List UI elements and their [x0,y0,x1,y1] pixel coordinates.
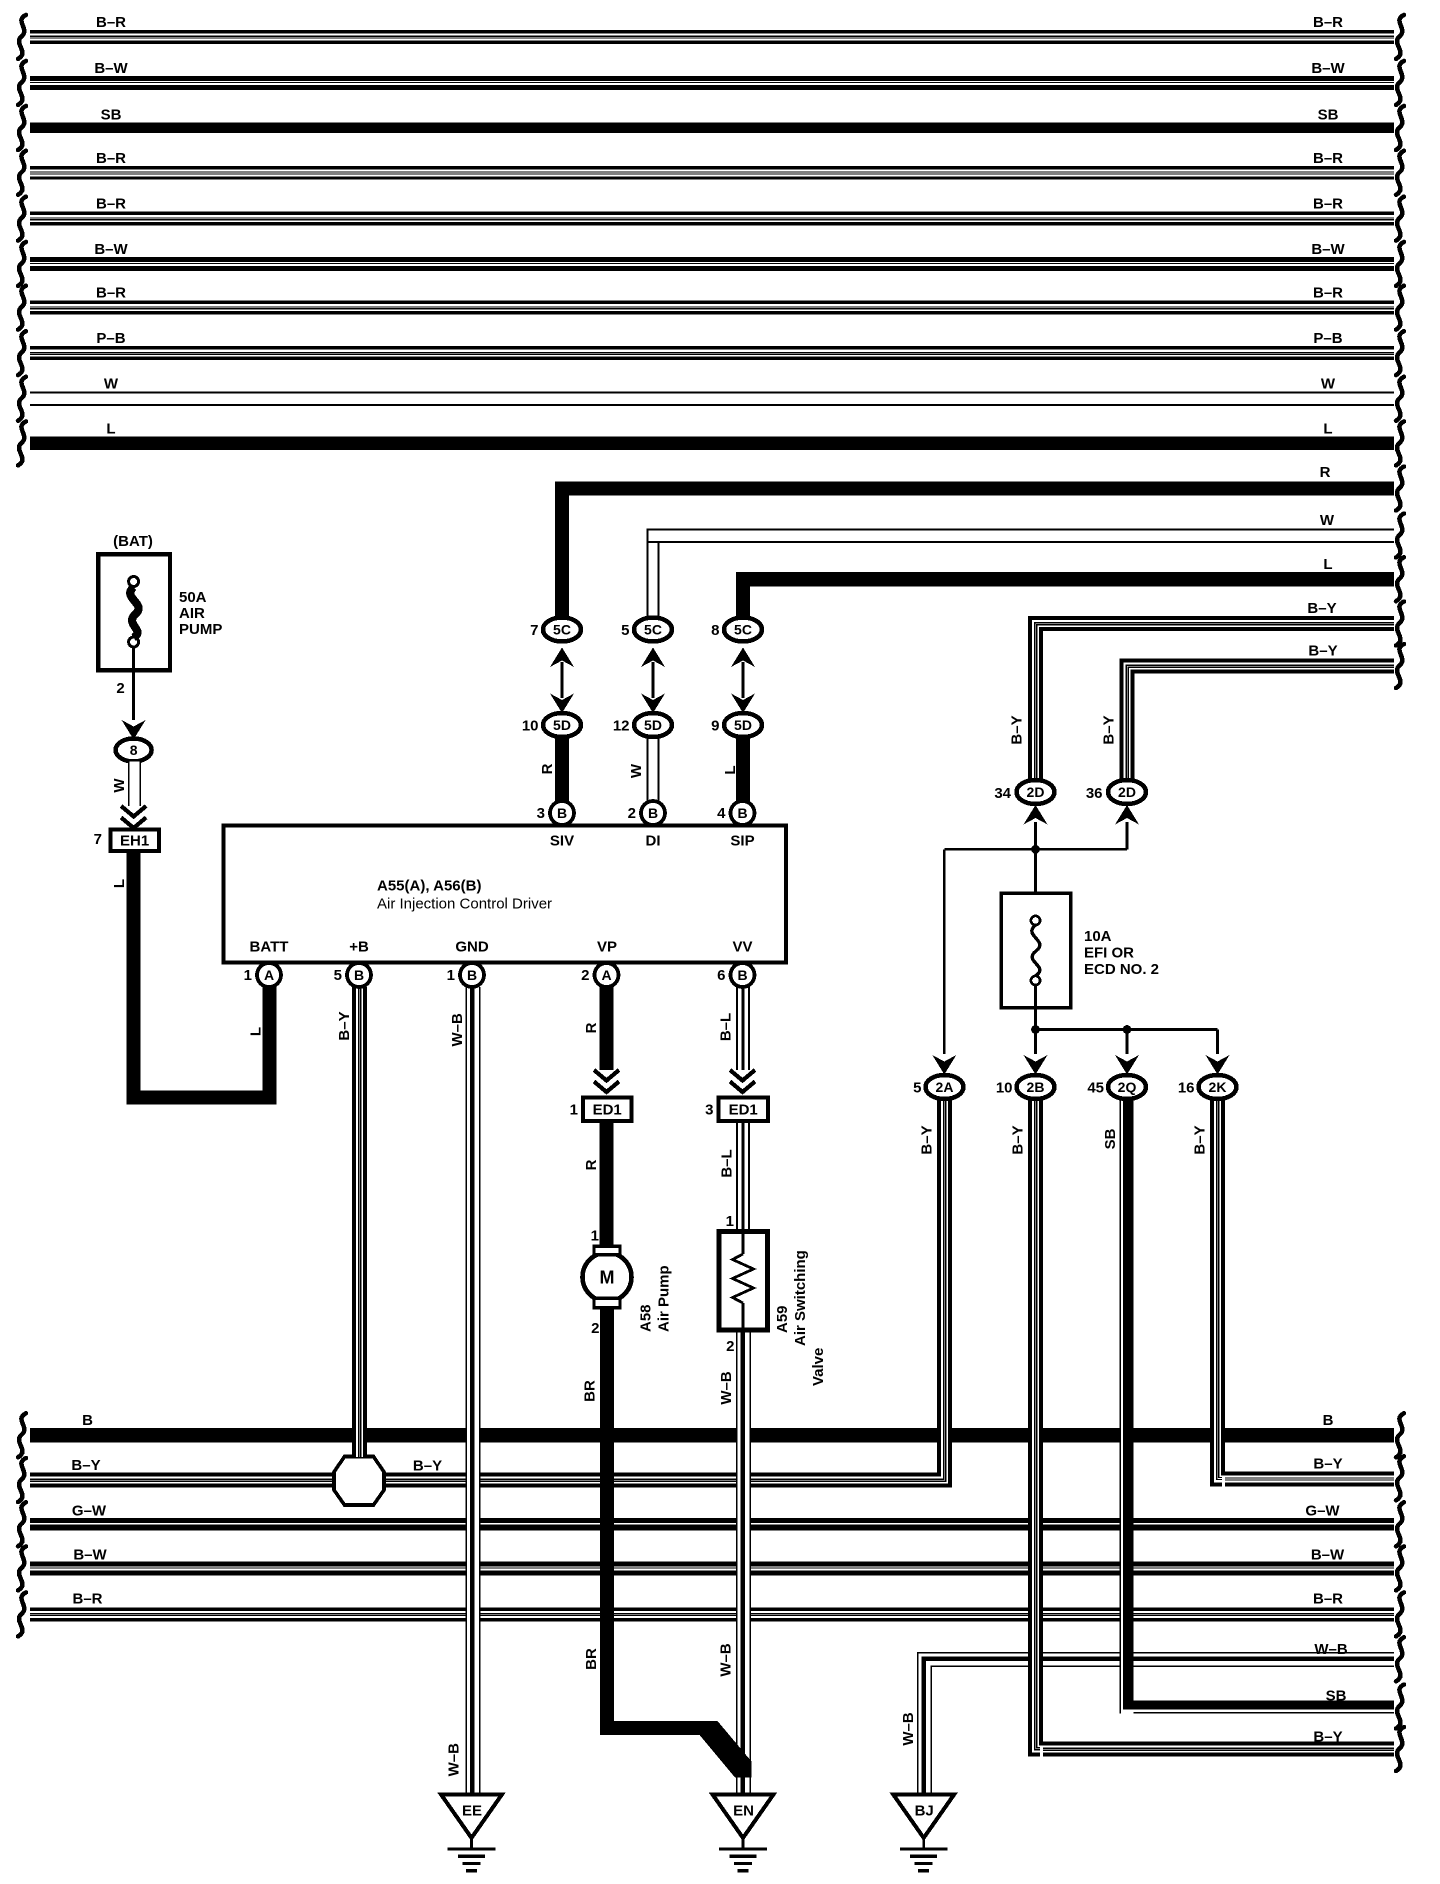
svg-text:1: 1 [570,1102,578,1119]
label (BAT) [113,533,153,550]
svg-text:P–B: P–B [96,330,125,347]
arrows into 2A 2B 2Q 2K [932,1055,1229,1075]
driver pin 2 (B) DI [628,801,665,825]
svg-text:L: L [106,421,115,438]
svg-text:L: L [722,765,739,774]
svg-text:Valve: Valve [810,1348,827,1386]
wire B-L from VV pin to ED1 [718,987,756,1092]
svg-text:B–Y: B–Y [1010,1125,1027,1154]
svg-text:16: 16 [1178,1080,1195,1097]
wire node between 2D arrows and fuse (junction) [944,822,1127,854]
wire L from EH1 to driver BATT pin [111,851,276,1105]
wire B–R bus (top row 1) [18,14,1404,59]
svg-text:B–R: B–R [96,196,126,213]
svg-text:2D: 2D [1118,784,1136,800]
harness arrows between 5C and 5D (column R) [550,648,574,714]
svg-text:B–R: B–R [72,1591,102,1608]
svg-text:W: W [1320,512,1335,529]
svg-text:L: L [248,1027,265,1036]
wire B-Y bus (bottom, from 2B) [1040,1727,1404,1771]
wire B–R bus (top row 4) [18,150,1404,195]
svg-text:VP: VP [597,939,617,956]
wire SB from 2Q to bus [1102,1099,1134,1713]
svg-text:4: 4 [717,805,726,822]
driver pin 2 (A) VP [581,963,618,987]
svg-text:VV: VV [732,939,752,956]
svg-text:B: B [1323,1412,1334,1429]
svg-text:5D: 5D [553,717,571,733]
wire W from 5D pin 12 to driver DI [628,737,660,802]
harness arrows between 5C and 5D (column W) [641,648,665,714]
svg-text:B: B [648,805,658,821]
svg-text:B–Y: B–Y [71,1457,100,1474]
svg-text:EFI OR: EFI OR [1084,945,1134,962]
svg-text:EH1: EH1 [120,833,149,850]
svg-text:P–B: P–B [1313,330,1342,347]
svg-text:6: 6 [717,967,725,984]
svg-text:2: 2 [628,805,636,822]
svg-text:SIV: SIV [550,833,574,850]
svg-text:B–R: B–R [96,150,126,167]
svg-text:50A: 50A [179,589,207,606]
svg-text:SB: SB [101,107,122,124]
svg-text:3: 3 [705,1102,713,1119]
svg-text:Air Pump: Air Pump [656,1265,673,1332]
wire B bus (bottom) [18,1412,1404,1457]
svg-text:B: B [557,805,567,821]
driver pin 1 (A) BATT [244,963,281,987]
svg-text:W: W [1321,376,1336,393]
svg-text:W–B: W–B [449,1013,466,1047]
svg-text:B–Y: B–Y [1192,1125,1209,1154]
svg-text:10: 10 [522,718,539,735]
svg-text:B–Y: B–Y [919,1125,936,1154]
wire W-B from GND pin to ground EE [446,987,481,1794]
svg-text:5C: 5C [644,622,662,638]
svg-text:EN: EN [733,1802,754,1819]
svg-text:B–Y: B–Y [1313,1729,1342,1746]
wire branch down to 2A [943,849,946,1054]
svg-text:ED1: ED1 [729,1102,758,1119]
svg-text:2: 2 [116,680,124,697]
ground BJ [893,1794,954,1870]
svg-text:W: W [628,763,645,778]
connector 2D pin 36 [1086,780,1146,804]
wire G-W bus (bottom) [18,1502,1404,1546]
wire B–W bus (top row 2) [18,60,1404,105]
svg-text:ECD NO. 2: ECD NO. 2 [1084,961,1159,978]
connector 2K pin 16 [1178,1075,1237,1099]
svg-text:BR: BR [582,1380,599,1402]
connector 2A pin 5 [913,1075,963,1099]
svg-text:W: W [111,778,128,793]
wire W-B bus (bottom) and drop to ground BJ [900,1637,1404,1794]
connector 2D pin 34 [994,780,1054,804]
svg-text:2D: 2D [1027,784,1045,800]
pin 2 label of fuse [116,680,124,697]
svg-text:ED1: ED1 [593,1102,622,1119]
svg-text:A58: A58 [638,1304,655,1332]
svg-text:DI: DI [646,833,661,850]
svg-text:L: L [1323,556,1332,573]
svg-text:GND: GND [455,939,489,956]
svg-text:R: R [539,763,556,774]
svg-text:B–Y: B–Y [413,1458,442,1475]
svg-text:+B: +B [349,939,369,956]
svg-text:W–B: W–B [718,1643,735,1677]
wire B–R bus (top row 5) [18,196,1404,241]
svg-text:1: 1 [244,967,252,984]
harness arrows between 5C and 5D (column L) [731,648,755,714]
svg-text:B–R: B–R [96,14,126,31]
wire W net (bus and drop to connector 5C pin 5) [647,512,1405,620]
wire B–R bus (top row 7) [18,285,1404,330]
svg-text:A59: A59 [774,1305,791,1333]
connector ED1 pin 1 [570,1098,632,1122]
wire B-L from ED1 to air switching valve [719,1121,751,1232]
svg-text:B–R: B–R [1313,150,1343,167]
svg-text:5: 5 [621,622,629,639]
svg-text:W–B: W–B [1314,1641,1348,1658]
svg-text:SB: SB [1326,1688,1347,1705]
connector 5C pin 5 [621,618,672,642]
wire R net (bus and drop to connector 5C pin 7) [555,464,1404,620]
svg-text:Air Injection Control Driver: Air Injection Control Driver [377,896,552,913]
valve A59 Air Switching Valve [719,1213,827,1386]
connector ED1 pin 3 [705,1098,768,1122]
svg-text:B–R: B–R [1313,14,1343,31]
wire B-Y from 2K to bus [1192,1099,1226,1486]
svg-text:B–R: B–R [96,285,126,302]
svg-text:8: 8 [711,622,719,639]
svg-text:5: 5 [334,967,342,984]
wire B-R bus (bottom) [18,1591,1404,1637]
svg-text:BR: BR [583,1648,600,1670]
wire L net (bus and drop to connector 5C pin 8) [736,556,1404,620]
svg-text:BJ: BJ [915,1802,934,1819]
svg-text:EE: EE [462,1802,482,1819]
svg-text:1: 1 [591,1228,599,1245]
svg-text:B–Y: B–Y [1101,715,1118,744]
svg-text:A: A [601,967,611,983]
svg-text:34: 34 [994,785,1011,802]
connector 5D pin 9 [711,713,762,737]
svg-text:B: B [737,805,747,821]
wire W bus (top row 9) [18,376,1404,421]
svg-text:2K: 2K [1209,1079,1227,1095]
svg-text:12: 12 [613,718,630,735]
wire from fuse to connector 8 [122,647,146,740]
svg-text:G–W: G–W [1305,1503,1340,1520]
svg-text:5: 5 [913,1080,921,1097]
svg-text:L: L [111,879,128,888]
svg-text:9: 9 [711,718,719,735]
svg-text:5C: 5C [553,622,571,638]
svg-text:A: A [264,967,274,983]
svg-text:2: 2 [581,967,589,984]
svg-text:B: B [82,1412,93,1429]
connector 5C pin 7 [530,618,581,642]
svg-text:Air Switching: Air Switching [792,1250,809,1346]
ground EN [713,1794,774,1870]
svg-text:B: B [467,967,477,983]
svg-text:G–W: G–W [72,1503,107,1520]
arrows into 2D connectors [1024,805,1140,825]
svg-text:7: 7 [94,831,102,848]
svg-text:B–Y: B–Y [1009,715,1026,744]
wire SB bus (bottom, from 2Q) [1120,1685,1405,1729]
connector EH1 pin 7 [94,830,159,851]
svg-text:2: 2 [591,1320,599,1337]
wire B–W bus (top row 6) [18,241,1404,286]
svg-text:W–B: W–B [446,1743,463,1777]
svg-text:2A: 2A [936,1079,954,1095]
svg-text:A55(A), A56(B): A55(A), A56(B) [377,878,481,895]
svg-text:5D: 5D [734,717,752,733]
wire B-Y net (bus to connector 2D pin 36) [1101,643,1405,782]
svg-text:10: 10 [996,1080,1013,1097]
svg-text:B–Y: B–Y [1308,643,1337,660]
svg-text:B–L: B–L [718,1013,735,1041]
wire node below fuse (junctions to 2B 2Q 2K) [1031,1025,1217,1054]
motor A58 Air Pump [583,1228,673,1338]
svg-text:5D: 5D [644,717,662,733]
splice octagon on B-Y bus [334,1457,384,1506]
svg-text:10A: 10A [1084,928,1112,945]
wire BR from motor to ground EN join [582,1308,752,1778]
svg-text:B–R: B–R [1313,1591,1343,1608]
svg-text:B–W: B–W [1311,60,1345,77]
svg-text:2Q: 2Q [1118,1079,1137,1095]
svg-text:1: 1 [447,967,455,984]
connector 2B pin 10 [996,1075,1055,1099]
fuse 10A EFI OR ECD NO. 2 [1001,849,1159,1030]
wire B-Y from 2B to bus [1010,1099,1044,1757]
svg-text:W–B: W–B [718,1371,735,1405]
ground EE [441,1794,502,1870]
wire L bus (top row 10) [18,421,1404,466]
wire SB bus (top row 3) [18,106,1404,150]
svg-text:2: 2 [726,1338,734,1355]
svg-text:B–Y: B–Y [1313,1456,1342,1473]
driver pin 6 (B) VV [717,963,754,987]
svg-text:W: W [104,376,119,393]
svg-text:B–W: B–W [73,1547,107,1564]
driver pin 1 (B) GND [447,963,484,987]
driver pin 3 (B) SIV [537,801,574,825]
driver pin 4 (B) SIP [717,801,754,825]
svg-text:B–L: B–L [719,1149,736,1177]
svg-text:B–R: B–R [1313,196,1343,213]
fuse 50A AIR PUMP [98,554,222,670]
svg-text:B: B [737,967,747,983]
svg-text:36: 36 [1086,785,1103,802]
svg-text:5C: 5C [734,622,752,638]
connector 5C pin 8 [711,618,762,642]
svg-text:R: R [1320,464,1331,481]
connector 8 [116,739,152,762]
svg-text:PUMP: PUMP [179,621,222,638]
svg-text:B–W: B–W [1311,1547,1345,1564]
svg-text:45: 45 [1087,1080,1104,1097]
svg-text:B–Y: B–Y [1307,600,1336,617]
svg-text:SB: SB [1318,107,1339,124]
svg-text:B–W: B–W [1311,241,1345,258]
svg-text:SB: SB [1102,1128,1119,1149]
wire L from 5D pin 9 to driver SIP [722,737,750,802]
wire R from 5D pin 10 to driver SIV [539,737,569,802]
svg-text:R: R [583,1159,600,1170]
svg-text:3: 3 [537,805,545,822]
wire B-W bus (bottom) [18,1546,1404,1590]
svg-text:B–Y: B–Y [336,1011,353,1040]
wire B-Y bus (bottom left, through splice) [18,1457,937,1502]
connector 5D pin 10 [522,713,581,737]
wire B-Y from 2A to bus [919,1099,953,1488]
svg-text:L: L [1323,421,1332,438]
svg-text:B–R: B–R [1313,285,1343,302]
svg-text:B–W: B–W [94,241,128,258]
connector 2Q pin 45 [1087,1075,1146,1099]
svg-text:8: 8 [130,742,138,758]
svg-text:R: R [583,1022,600,1033]
wire B-Y net (bus to connector 2D pin 34) [1009,600,1405,782]
svg-text:B: B [354,967,364,983]
svg-text:M: M [600,1268,615,1288]
svg-text:1: 1 [726,1213,734,1230]
svg-text:AIR: AIR [179,605,205,622]
svg-text:BATT: BATT [250,939,289,956]
wire P–B bus (top row 8) [18,330,1404,375]
svg-text:W–B: W–B [900,1712,917,1746]
wire W-B from valve to ground EN [718,1330,751,1794]
wire W from connector 8 to EH1 [111,762,146,829]
driver pin 5 (B) +B [334,963,371,987]
wire B-Y from +B pin to splice [336,987,367,1457]
wire B-Y bus (bottom right, from 2K) [1222,1456,1404,1501]
wire R from VP pin to ED1 [583,987,619,1092]
svg-text:(BAT): (BAT) [113,533,153,550]
connector 5D pin 12 [613,713,672,737]
svg-text:SIP: SIP [730,833,754,850]
svg-text:B–W: B–W [94,60,128,77]
svg-text:2B: 2B [1027,1079,1045,1095]
IC A55/A56 Air Injection Control Driver box [224,826,787,963]
svg-text:7: 7 [530,622,538,639]
wire R from ED1 to air pump motor [583,1121,614,1246]
